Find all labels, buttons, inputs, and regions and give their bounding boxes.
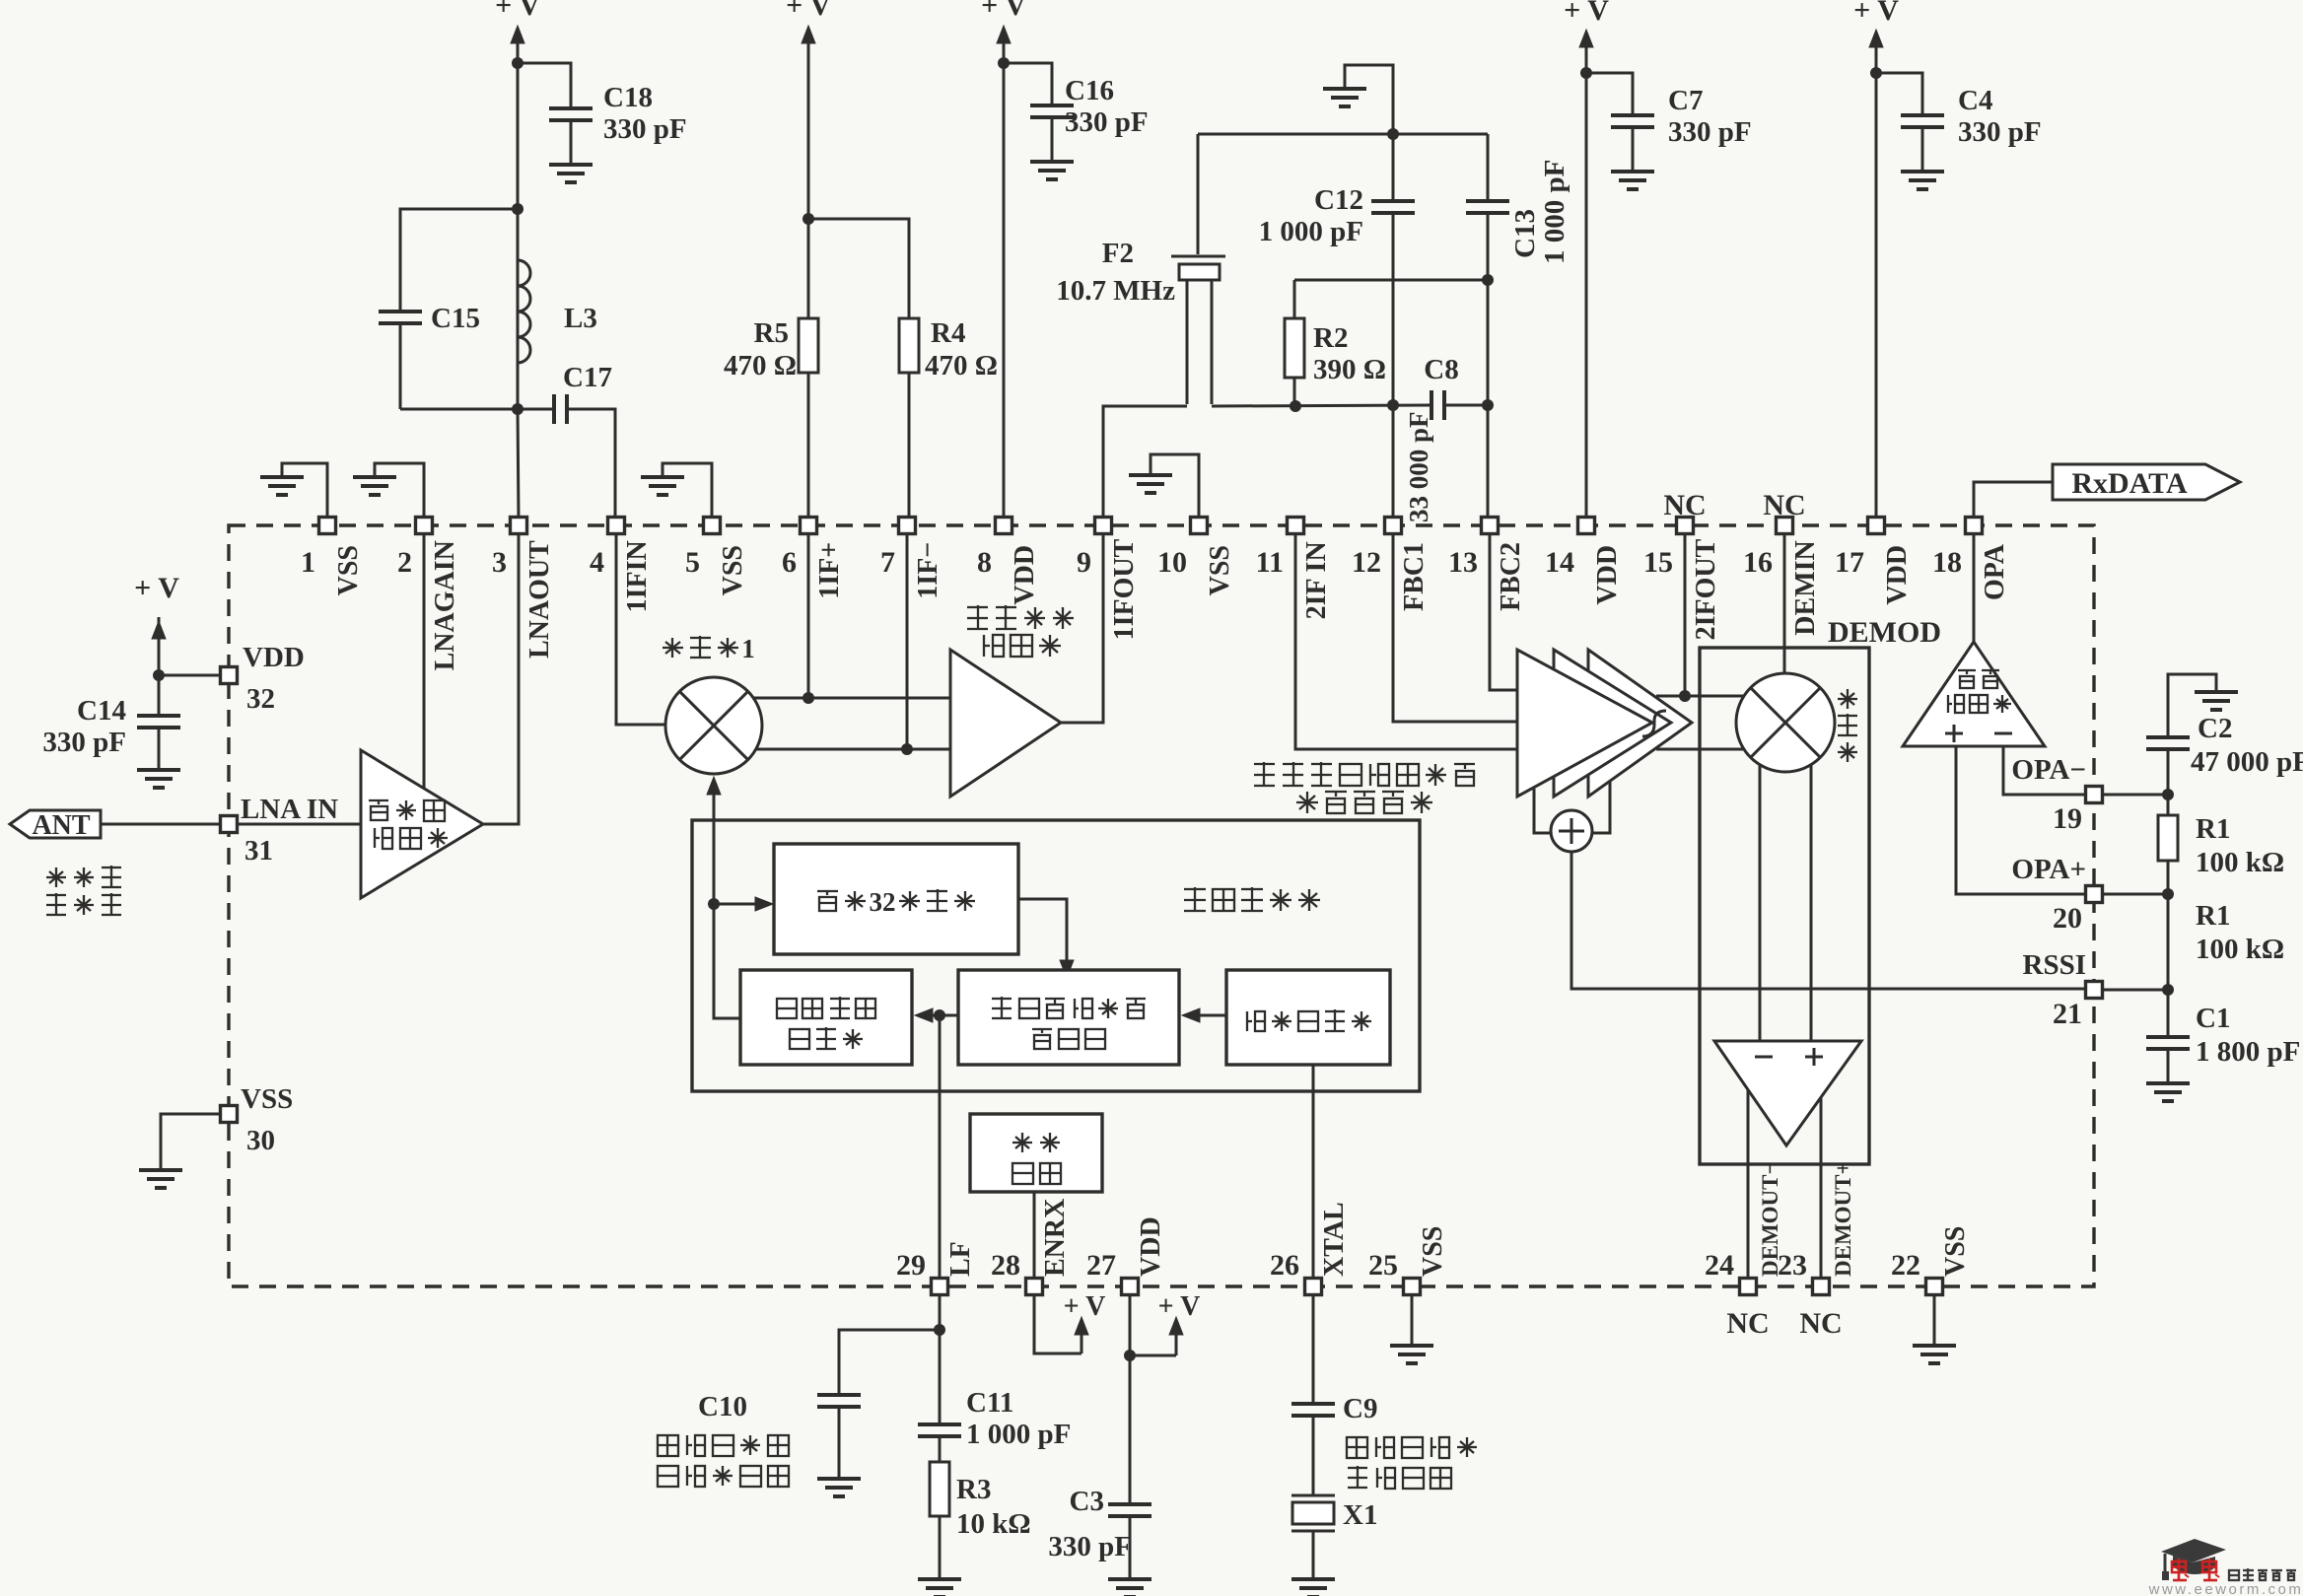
svg-text:1IF+: 1IF+ [814, 542, 845, 599]
wire pin 21 to junction [2094, 989, 2168, 992]
svg-text:C12: C12 [1314, 184, 1363, 216]
svg-text:R1: R1 [2196, 900, 2230, 932]
wire +V rail D to pin 14 [1585, 45, 1588, 520]
svg-text:VDD: VDD [243, 642, 305, 673]
pin 13 pad [1482, 518, 1499, 534]
wire C9 to X1 [1312, 1416, 1315, 1495]
ground below C16 [1030, 160, 1074, 164]
capacitor C15 [379, 310, 422, 313]
wire pin 20 to junction [2094, 893, 2168, 896]
node junction rail E / C4 tap [1870, 67, 1882, 79]
box frequency synthesizer [692, 820, 1420, 1091]
pin 20 pad [2086, 886, 2103, 903]
svg-text:C3: C3 [1070, 1486, 1104, 1517]
node junction C13 column / R2 bus [1482, 274, 1494, 286]
resistor R4 [899, 318, 919, 373]
wire LO column to VCO [714, 904, 740, 1018]
svg-text:13: 13 [1448, 546, 1478, 579]
svg-text:+ V: + V [1158, 1291, 1201, 1322]
svg-text:330 pF: 330 pF [1048, 1531, 1132, 1562]
svg-text:VDD: VDD [1592, 545, 1623, 605]
op-amp U-LIM2 (limiter, middle) [1554, 650, 1671, 797]
svg-text:C11: C11 [966, 1387, 1013, 1419]
pin 9 pad [1095, 518, 1112, 534]
wire C2 to OPA- node [2167, 749, 2170, 815]
wire R5 to pin 6 [807, 373, 810, 520]
op-amp U-DEMAMP (demod comparator) [1714, 1041, 1861, 1145]
pin 31 pad [221, 816, 238, 833]
hysteresis mark on limiter [1642, 711, 1666, 736]
wire C18 to ground [570, 120, 573, 163]
wire pin 25 to ground [1411, 1294, 1414, 1344]
resistor R3 [930, 1462, 949, 1516]
svg-text:C9: C9 [1343, 1393, 1377, 1424]
node junction pin 6 / mixer output + [803, 692, 814, 704]
svg-text:F2: F2 [1102, 238, 1134, 269]
wire phase detector to VCO (arrow) [927, 1014, 958, 1017]
summing node (sigma) for RSSI [1551, 810, 1592, 852]
wire pin 4 to mixer 1 input [616, 533, 665, 725]
svg-text:10 kΩ: 10 kΩ [956, 1508, 1031, 1540]
wire crystal osc to pin 26 XTAL [1312, 1065, 1315, 1279]
wire RSSI to pin 21 [1571, 852, 2094, 989]
wire C14 top [158, 675, 161, 716]
capacitor C16 [1030, 104, 1074, 107]
pin 2 pad [416, 518, 433, 534]
wire R4 to pin 7 [908, 373, 911, 520]
mixer U-MIX1 [665, 677, 762, 774]
pin 8 pad [996, 518, 1012, 534]
svg-text:12: 12 [1352, 546, 1381, 579]
node junction rail C / C16 tap [998, 57, 1010, 69]
wire demod mixer out - column [1759, 765, 1762, 1041]
ground below R3 [918, 1577, 961, 1581]
svg-text:C15: C15 [431, 303, 480, 334]
wire C7 tap [1586, 73, 1633, 115]
wire R3 to ground [939, 1516, 942, 1579]
svg-text:23: 23 [1778, 1249, 1807, 1282]
ground at pin 30 [139, 1168, 182, 1172]
node junction tank bottom [512, 403, 523, 415]
capacitor C3 [1108, 1502, 1151, 1506]
svg-text:+ V: + V [1853, 0, 1899, 27]
wire pin 18 OPA to op-amp [1973, 533, 1976, 642]
svg-text:1 000 pF: 1 000 pF [1259, 216, 1363, 247]
wire pin 7 column [906, 533, 909, 749]
op-amp U-OPA (output op amp) [1903, 642, 2045, 746]
pin 27 pad [1122, 1279, 1139, 1295]
label C9 description [1347, 1437, 1367, 1458]
svg-text:8: 8 [977, 546, 992, 579]
label crystal oscillator name [1246, 1011, 1248, 1031]
svg-text:C1: C1 [2196, 1003, 2230, 1034]
ground below C1 [2146, 1081, 2190, 1085]
ground above pin 10 [1129, 473, 1172, 477]
svg-text:R2: R2 [1313, 322, 1348, 354]
capacitor C13 [1466, 199, 1509, 203]
svg-text:DEMOD: DEMOD [1828, 616, 1941, 649]
pin 14 pad [1578, 518, 1595, 534]
capacitor C12 [1371, 199, 1415, 203]
svg-text:C14: C14 [77, 695, 126, 727]
svg-text:31: 31 [244, 835, 273, 867]
wire C4 tap [1876, 73, 1922, 115]
label demod comparator + input [1805, 1056, 1823, 1059]
wire op amp + to pin 20 [1956, 746, 2086, 894]
svg-text:4: 4 [590, 546, 604, 579]
wire pin 22 to ground [1933, 1294, 1936, 1344]
svg-text:1IF−: 1IF− [913, 542, 943, 599]
pin 29 pad [932, 1279, 948, 1295]
node junction pin 11 / R2 / F2 [1290, 400, 1301, 412]
node junction rail B / R4 tap [803, 213, 814, 225]
resistor R2 [1293, 280, 1296, 318]
capacitor C2 [2146, 735, 2190, 739]
wire pin 19 to junction [2094, 794, 2168, 797]
svg-text:DEMIN: DEMIN [1790, 540, 1821, 635]
svg-text:+ V: + V [786, 0, 831, 22]
svg-text:27: 27 [1086, 1249, 1116, 1282]
ground above C2 [2195, 690, 2238, 694]
wire C16 to ground [1051, 117, 1054, 160]
label limiting amplifier name [1254, 763, 1275, 765]
pin 30 pad [221, 1106, 238, 1123]
pin 24 pad [1740, 1279, 1757, 1295]
capacitor C17 [552, 394, 556, 424]
wire pin 30 to ground [161, 1114, 221, 1168]
resistor R1 (lower) [2167, 894, 2170, 990]
svg-text:ANT: ANT [32, 810, 90, 841]
label antenna matching network [55, 867, 57, 887]
pin 28 pad [1026, 1279, 1043, 1295]
pin 4 pad [608, 518, 625, 534]
svg-text:VDD: VDD [1136, 1216, 1166, 1277]
wire pin 18 to RxDATA [1974, 482, 2053, 520]
svg-text:OPA+: OPA+ [2011, 854, 2086, 885]
wire mixer 1 output - (to pin 7 / preamp) [756, 748, 950, 751]
svg-text:+ V: + V [1564, 0, 1609, 27]
svg-text:10: 10 [1157, 546, 1187, 579]
svg-text:www.eeworm.com: www.eeworm.com [2148, 1581, 2303, 1596]
op-amp U-LNA (low noise amplifier) [361, 750, 483, 898]
ground below C4 [1901, 170, 1944, 173]
wire LF column to pin 29 [939, 1015, 942, 1279]
capacitor C14 [137, 714, 180, 718]
svg-text:+ V: + V [134, 572, 179, 604]
svg-text:1IFOUT: 1IFOUT [1109, 538, 1140, 640]
svg-text:29: 29 [896, 1249, 926, 1282]
svg-text:14: 14 [1545, 546, 1574, 579]
capacitor C7 [1611, 113, 1654, 117]
svg-text:100 kΩ: 100 kΩ [2196, 847, 2284, 878]
svg-text:15: 15 [1643, 546, 1673, 579]
box crystal oscillator [1226, 970, 1390, 1065]
svg-text:16: 16 [1743, 546, 1773, 579]
wire RSSI node to C1 [2167, 990, 2170, 1037]
ground below pin 25 [1390, 1344, 1433, 1348]
svg-text:OPA−: OPA− [2011, 754, 2086, 786]
svg-text:5: 5 [685, 546, 700, 579]
wire R2 top to C13 column [1294, 279, 1488, 282]
svg-text:FBC1: FBC1 [1399, 542, 1430, 611]
svg-text:VSS: VSS [1418, 1226, 1448, 1277]
pin 3 pad [511, 518, 527, 534]
pin 1 pad [319, 518, 336, 534]
label demod comparator - input [1755, 1056, 1773, 1059]
svg-text:C16: C16 [1065, 75, 1114, 106]
pin 15 pad [1677, 518, 1694, 534]
svg-text:R1: R1 [2196, 813, 2230, 845]
wire +V rail C to pin 8 [1003, 41, 1006, 520]
node RxDATA output flag [2053, 464, 2240, 500]
ground above C12 [1323, 87, 1366, 91]
svg-text:NC: NC [1799, 1307, 1842, 1340]
svg-text:VSS: VSS [241, 1083, 293, 1115]
svg-text:330 pF: 330 pF [603, 113, 687, 145]
label bias circuit name [1021, 1133, 1023, 1152]
svg-text:NC: NC [1726, 1307, 1769, 1340]
wire top bus (C12/C13/F2) [1198, 133, 1488, 136]
wire crystal osc to phase detector (arrow) [1194, 1014, 1226, 1017]
pin 10 pad [1191, 518, 1208, 534]
capacitor C18 [549, 106, 593, 110]
svg-text:20: 20 [2053, 902, 2082, 935]
wire ANT to pin 31 [101, 823, 221, 826]
wire C10 to ground [838, 1407, 841, 1477]
svg-text:VSS: VSS [333, 545, 364, 595]
node junction pin 7 / mixer output - [901, 743, 913, 755]
svg-text:LNAOUT: LNAOUT [524, 540, 555, 659]
watermark logo (graduation cap) [2161, 1539, 2226, 1562]
wire limiter output + to demod mixer [1656, 695, 1745, 698]
capacitor C4 [1901, 113, 1944, 117]
capacitor C1 [2146, 1035, 2190, 1039]
ground below C14 [137, 768, 180, 772]
svg-text:FBC2: FBC2 [1496, 542, 1526, 611]
wire tank bottom to C17 [400, 408, 554, 411]
capacitor C8 [1430, 390, 1433, 420]
svg-text:C2: C2 [2198, 713, 2232, 744]
wire pin 27 column [1129, 1294, 1132, 1504]
wire pin 6 column [807, 533, 810, 698]
wire op amp - to pin 19 [2003, 746, 2086, 795]
label mixer 1 name [671, 638, 673, 658]
wire F2 output bus left (to pin 9) [1103, 406, 1187, 520]
node junction RSSI (pin 21) [2162, 984, 2174, 996]
wire R1 to OPA+ node [2167, 861, 2170, 894]
wire limiter RSSI stub left [1534, 789, 1553, 833]
box bias circuit [970, 1114, 1102, 1192]
svg-text:22: 22 [1891, 1249, 1920, 1282]
svg-text:OPA: OPA [1980, 543, 2010, 600]
node junction pin 27 / +V [1124, 1350, 1136, 1361]
label op amp - input [1994, 732, 2012, 735]
wire pin 15 2IFOUT column [1684, 533, 1687, 696]
pin 5 pad [704, 518, 721, 534]
label C10 description [658, 1435, 678, 1456]
node ANT input flag [10, 810, 101, 838]
wire C17 to pin 4 [567, 409, 615, 520]
wire C16 tap [1004, 63, 1052, 105]
wire junction to pin 32 [159, 674, 221, 677]
svg-text:18: 18 [1932, 546, 1962, 579]
svg-text:X1: X1 [1343, 1499, 1377, 1531]
svg-text:+ V: + V [1064, 1291, 1106, 1322]
net +V at pin 27 [1175, 1323, 1178, 1355]
wire C13 column to pin 13 [1487, 134, 1490, 201]
wire X1 to ground [1312, 1531, 1315, 1579]
wire demod mixer out + column [1810, 765, 1813, 1041]
svg-text:330 pF: 330 pF [1065, 106, 1149, 138]
svg-text:+ V: + V [495, 0, 540, 22]
wire C12 column to pin 12 [1392, 134, 1395, 201]
svg-text:1IFIN: 1IFIN [622, 540, 653, 612]
svg-text:VSS: VSS [1940, 1226, 1971, 1277]
node junction pin 15 / limiter output [1679, 690, 1691, 702]
capacitor C9 [1291, 1402, 1335, 1406]
box DEMOD [1700, 648, 1869, 1164]
label op amp + input [1945, 732, 1963, 735]
wire pin 27 +V arm [1130, 1354, 1176, 1357]
svg-text:VSS: VSS [1205, 545, 1235, 595]
ground above pin 5 [641, 475, 684, 479]
wire LO into mixer 1 (arrow) [713, 795, 716, 904]
wire DEMOUT- to pin 24 [1747, 1089, 1750, 1279]
svg-text:RSSI: RSSI [2023, 949, 2087, 981]
svg-text:330 pF: 330 pF [1958, 116, 2042, 148]
watermark text chongchong (red) [2172, 1561, 2186, 1572]
svg-text:32: 32 [246, 683, 275, 715]
node junction top bus / C12 [1387, 128, 1399, 140]
wire +V rail B vertical [807, 41, 810, 318]
op-amp U-LIM3 (limiter, back) [1588, 650, 1692, 797]
svg-text:3: 3 [869, 887, 882, 917]
resistor R5 [799, 318, 818, 373]
pin 22 pad [1926, 1279, 1943, 1295]
svg-text:C17: C17 [563, 362, 612, 393]
filter F2 10.7 MHz [1171, 255, 1225, 258]
svg-text:XTAL: XTAL [1319, 1202, 1350, 1277]
pin 19 pad [2086, 787, 2103, 803]
pin 25 pad [1404, 1279, 1421, 1295]
svg-text:ENRX: ENRX [1040, 1199, 1071, 1277]
svg-text:2: 2 [397, 546, 412, 579]
pin 18 pad [1966, 518, 1983, 534]
capacitor C10 [817, 1393, 861, 1397]
svg-text:2IF IN: 2IF IN [1301, 541, 1332, 619]
pin 12 pad [1385, 518, 1402, 534]
svg-text:390 Ω: 390 Ω [1313, 354, 1386, 385]
pin 11 pad [1288, 518, 1304, 534]
svg-text:R5: R5 [754, 317, 789, 349]
op-amp U-IFAMP (IF preamplifier) [950, 650, 1061, 797]
node junction LF tap [934, 1009, 945, 1021]
svg-text:1 000 pF: 1 000 pF [966, 1419, 1071, 1450]
svg-text:470 Ω: 470 Ω [925, 350, 998, 382]
wire pin 12 FBC1 into limiter [1393, 533, 1517, 722]
wire LNA output to pin 3 [483, 533, 519, 824]
wire pin 5 to ground [663, 463, 712, 520]
wire C15 bottom [399, 323, 402, 409]
svg-text:33 000 pF: 33 000 pF [1404, 411, 1433, 522]
pin 6 pad [801, 518, 817, 534]
box VCO [740, 970, 912, 1065]
wire C1 to ground [2167, 1049, 2170, 1081]
pin 32 pad [221, 667, 238, 684]
svg-text:+ V: + V [981, 0, 1026, 22]
wire +V rail A vertical [517, 41, 520, 409]
wire pin 1 to ground [282, 463, 327, 520]
wire C8 right to C13 column [1444, 404, 1488, 407]
op-amp U-LIM1 (limiter, front) [1517, 650, 1652, 797]
svg-text:VDD: VDD [1010, 545, 1040, 605]
wire mixer 1 output + (to pin 6 / preamp) [753, 697, 950, 700]
svg-text:30: 30 [246, 1125, 275, 1156]
wire pin 31 to LNA input [237, 823, 361, 826]
wire pin 26 to C9 [1312, 1294, 1315, 1404]
svg-text:3: 3 [492, 546, 507, 579]
svg-text:C10: C10 [698, 1391, 747, 1423]
svg-text:47 000 pF: 47 000 pF [2191, 746, 2303, 778]
svg-text:17: 17 [1835, 546, 1864, 579]
capacitor C11 [918, 1423, 961, 1426]
wire pin 28 +V arm [1034, 1294, 1082, 1353]
ground below C10 [817, 1477, 861, 1481]
wire C11 to R3 [939, 1436, 942, 1462]
wire C2 to ground [2168, 674, 2216, 737]
inductor L3 [517, 209, 520, 260]
wire +V pin 32 arrow [158, 617, 161, 675]
svg-text:LNA IN: LNA IN [241, 794, 338, 825]
node junction LF external [934, 1324, 945, 1336]
node junction LO / divider tap [708, 898, 720, 910]
pin 26 pad [1305, 1279, 1322, 1295]
crystal X1 [1291, 1494, 1335, 1497]
wire C4 to ground [1921, 127, 1924, 170]
svg-text:1: 1 [301, 546, 315, 579]
wire C14 to ground [158, 728, 161, 768]
svg-text:1 800 pF: 1 800 pF [2196, 1036, 2300, 1068]
resistor R1 (upper) [2158, 815, 2178, 861]
wire pin 2 LNAGAIN into LNA [423, 533, 426, 789]
label demod mixer name [1847, 689, 1849, 709]
node junction rail A / tank top [512, 203, 523, 215]
ground below C7 [1611, 170, 1654, 173]
wire tank top to C15 [400, 209, 518, 312]
ground below C18 [549, 163, 593, 167]
pin 21 pad [2086, 982, 2103, 999]
svg-text:LF: LF [945, 1241, 976, 1277]
wire C7 to ground [1632, 127, 1635, 170]
pin 17 pad [1868, 518, 1885, 534]
wire pin 3 external (LNAOUT node) [518, 409, 519, 520]
ground below C3 [1108, 1577, 1151, 1581]
svg-text:R4: R4 [931, 317, 965, 349]
wire pin 13 FBC2 into limiter [1490, 533, 1517, 690]
svg-text:2: 2 [882, 887, 896, 917]
svg-text:24: 24 [1705, 1249, 1734, 1282]
svg-text:7: 7 [880, 546, 895, 579]
wire C18 tap [518, 63, 571, 108]
svg-text:RxDATA: RxDATA [2071, 467, 2188, 500]
svg-text:21: 21 [2053, 998, 2082, 1030]
svg-text:2IFOUT: 2IFOUT [1691, 538, 1721, 640]
label frequency synthesizer [1184, 888, 1206, 890]
node junction C13 column / C8 right [1482, 399, 1494, 411]
ground above pin 1 [260, 475, 304, 479]
wire LF junction to C10 [839, 1330, 940, 1395]
svg-text:DEMOUT+: DEMOUT+ [1831, 1161, 1855, 1277]
